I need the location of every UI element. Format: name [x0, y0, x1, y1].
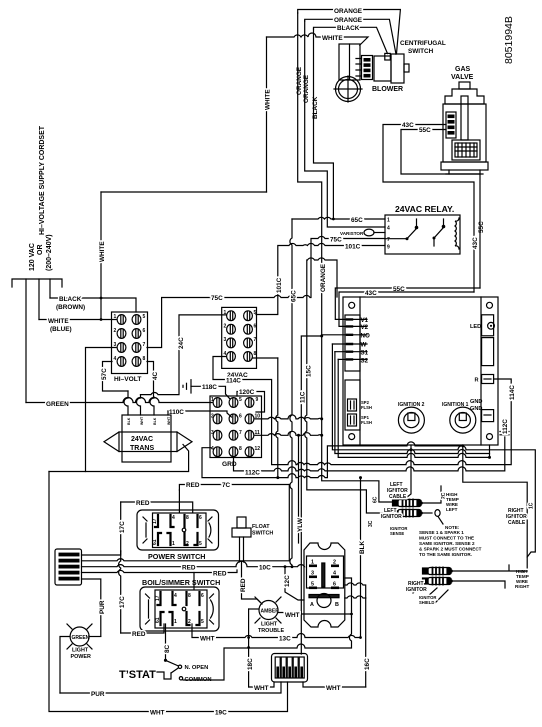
svg-text:RED: RED [136, 500, 150, 507]
svg-text:HI–VOLT: HI–VOLT [114, 376, 141, 383]
float switch [232, 517, 251, 562]
svg-text:TRANS: TRANS [130, 445, 154, 452]
svg-text:HI–VOLTAGE SUPPLY CORDSET: HI–VOLTAGE SUPPLY CORDSET [39, 125, 46, 235]
wire 110C [168, 411, 232, 417]
svg-text:MUST CONNECT TO THE: MUST CONNECT TO THE [419, 536, 474, 541]
svg-text:SHIELD: SHIELD [419, 600, 434, 605]
svg-text:120C: 120C [239, 389, 255, 396]
svg-text:SAME IGNITOR. SENSE 2: SAME IGNITOR. SENSE 2 [419, 541, 475, 546]
terminal strip 5 [55, 549, 82, 585]
svg-text:61: 61 [152, 539, 158, 545]
svg-text:8: 8 [188, 593, 191, 599]
svg-text:POWER SWITCH: POWER SWITCH [148, 552, 206, 561]
HI-VOLT connector [112, 312, 148, 374]
svg-text:6: 6 [201, 593, 204, 599]
svg-text:BOIL/SIMMER SWITCH: BOIL/SIMMER SWITCH [142, 578, 220, 587]
wire S1 riser [335, 352, 490, 454]
bottom terminal block [272, 654, 308, 683]
wire 24VAC pin8 down [276, 358, 278, 478]
svg-text:LIGHT: LIGHT [261, 622, 278, 628]
svg-text:R: R [475, 378, 479, 384]
svg-text:7: 7 [239, 430, 242, 436]
wire rocker right stubs [345, 583, 366, 598]
wire PUR bottom [60, 682, 281, 693]
svg-text:SWITCH: SWITCH [252, 531, 273, 537]
svg-text:75C: 75C [211, 295, 223, 302]
svg-text:101C: 101C [276, 277, 283, 293]
wire NO stub to orange [322, 334, 352, 336]
relay internal wires [385, 238, 407, 240]
svg-text:YLW: YLW [297, 517, 304, 532]
wire 65C vertical [290, 219, 292, 567]
svg-text:WHT: WHT [167, 416, 171, 425]
svg-text:WHITE: WHITE [265, 89, 272, 110]
svg-text:POWER: POWER [71, 654, 91, 660]
wire strip bar5 PUR [82, 579, 101, 636]
wire 120C [237, 392, 265, 413]
wire WHT amber right [278, 613, 352, 615]
svg-text:1: 1 [387, 218, 390, 224]
wire 114C [213, 357, 511, 465]
svg-text:1C: 1C [529, 502, 535, 509]
svg-text:8: 8 [143, 356, 146, 362]
svg-text:LEFT: LEFT [446, 507, 458, 512]
wire S2 stub [338, 358, 352, 360]
wire 43C into V2 [339, 292, 474, 326]
svg-text:5: 5 [239, 397, 242, 403]
wire ORANGE2 [305, 19, 396, 54]
svg-text:N. OPEN: N. OPEN [185, 665, 209, 671]
svg-text:3C: 3C [368, 520, 374, 527]
svg-text:5: 5 [199, 541, 202, 547]
svg-text:6: 6 [239, 413, 242, 419]
svg-text:TO THE SAME IGNITOR.: TO THE SAME IGNITOR. [419, 552, 472, 557]
svg-text:RED: RED [186, 482, 200, 489]
svg-text:114C: 114C [226, 378, 241, 385]
svg-text:RED: RED [213, 571, 227, 578]
svg-text:2: 2 [114, 328, 117, 334]
svg-text:6: 6 [199, 515, 202, 521]
svg-text:4C: 4C [152, 371, 159, 380]
svg-text:GREEN: GREEN [72, 635, 90, 641]
wire GRD pin11 row [255, 431, 322, 435]
transformer leads [124, 391, 128, 415]
wire ignition2 drop to left ignitor [404, 445, 411, 500]
svg-text:6: 6 [254, 324, 257, 330]
svg-text:GRD: GRD [222, 461, 237, 468]
svg-text:PUR: PUR [99, 600, 106, 614]
svg-text:WHITE: WHITE [322, 35, 343, 42]
module pin stubs [352, 319, 367, 359]
svg-text:WHT: WHT [200, 636, 215, 643]
rocker terminal bars [309, 565, 339, 590]
wire S1 stub [335, 351, 352, 353]
svg-text:BLOWER: BLOWER [372, 86, 403, 93]
svg-text:WHITE: WHITE [48, 318, 69, 325]
svg-text:LED: LED [470, 324, 481, 330]
wire YLW vertical [298, 435, 300, 543]
svg-text:GND: GND [470, 399, 482, 405]
svg-text:65C: 65C [351, 217, 363, 224]
wire 101C relay pin9 to 24VAC pin5 [256, 243, 385, 314]
svg-text:S1: S1 [361, 350, 369, 357]
svg-text:12C: 12C [284, 575, 291, 587]
wire S2 riser [338, 359, 489, 457]
wire 43C from valve [383, 125, 474, 293]
left ignitor assembly [393, 486, 442, 517]
wire RED to power switch [121, 502, 193, 512]
wire WHITE top [267, 33, 369, 45]
svg-text:57C: 57C [101, 368, 108, 380]
svg-text:VALVE: VALVE [451, 74, 474, 81]
svg-text:SENSE: SENSE [390, 531, 404, 536]
wire 4C [147, 362, 154, 398]
wire GREEN to GRD pin1 [26, 398, 212, 403]
svg-text:15C: 15C [305, 365, 312, 377]
power switch [137, 510, 219, 550]
svg-text:B: B [335, 602, 339, 608]
wire 65C to relay pin1 [292, 217, 385, 219]
svg-text:COMMON: COMMON [185, 677, 212, 683]
svg-text:1: 1 [224, 310, 227, 316]
wire 15C vertical [305, 258, 393, 513]
svg-text:55C: 55C [419, 127, 431, 134]
svg-text:ORANGE: ORANGE [296, 66, 303, 95]
wire 24C from 24VAC pin1 [141, 315, 227, 395]
wire supply stub white [38, 279, 40, 320]
svg-text:18C: 18C [247, 658, 254, 670]
wire WHT left of block [249, 682, 274, 687]
svg-text:8C: 8C [164, 644, 171, 653]
svg-text:BLK: BLK [127, 417, 131, 425]
ignition control module [343, 297, 498, 445]
right ignitor assembly [423, 565, 528, 588]
wire 57C [103, 362, 129, 392]
wire BLACK(BROWN) to HI-VOLT pin5 [50, 298, 136, 312]
node white junction [100, 318, 103, 321]
svg-text:PUR: PUR [91, 691, 105, 698]
wire BLACK top [314, 27, 388, 53]
wire white horizontal link [101, 191, 267, 193]
svg-text:FLSH: FLSH [361, 420, 372, 425]
svg-text:43C: 43C [402, 122, 414, 129]
relay contact 1 [406, 237, 409, 240]
svg-text:24VAC: 24VAC [131, 436, 153, 443]
svg-text:101C: 101C [345, 244, 361, 251]
wire orange2 steps to relay pin4 [305, 21, 385, 227]
svg-text:17: 17 [155, 595, 161, 601]
GRD connector [210, 396, 262, 458]
svg-text:10C: 10C [259, 565, 271, 572]
svg-text:2: 2 [211, 413, 214, 419]
24VAC TRANS [104, 415, 192, 462]
wire WHITE(BLUE) to HI-VOLT pin1 [39, 319, 116, 321]
wire RED 7C line [179, 485, 289, 491]
wire amber left [249, 608, 259, 610]
wire W stub [332, 343, 352, 345]
svg-text:CABLE: CABLE [389, 494, 407, 500]
svg-text:A: A [310, 602, 314, 608]
wire orange1 steps down [298, 13, 393, 502]
wire 75C from HI-VOLT pin7 to relay pin7 [147, 236, 385, 347]
svg-text:19C: 19C [215, 710, 227, 717]
svg-text:7: 7 [254, 337, 257, 343]
svg-text:43C: 43C [472, 237, 479, 249]
svg-text:WHT: WHT [326, 685, 341, 692]
wire lower-left horizontal [49, 445, 189, 472]
svg-text:& SPARK 2 MUST CONNECT: & SPARK 2 MUST CONNECT [419, 547, 482, 552]
wire supply stub black [49, 279, 51, 298]
svg-text:1: 1 [114, 314, 117, 320]
svg-text:24VAC RELAY.: 24VAC RELAY. [395, 204, 454, 214]
svg-text:120 VAC: 120 VAC [29, 243, 36, 271]
wire ignition1 drop to right ignitor cable [463, 445, 527, 571]
light switch rocker [304, 543, 345, 627]
svg-text:5: 5 [201, 619, 204, 625]
svg-text:OR: OR [37, 245, 44, 256]
svg-text:2: 2 [224, 324, 227, 330]
svg-text:65C: 65C [291, 290, 298, 302]
wire 17C vertical [119, 502, 121, 633]
svg-text:114C: 114C [509, 385, 516, 400]
svg-text:WHT: WHT [150, 710, 165, 717]
wire long white vertical from top [100, 192, 102, 320]
svg-text:24C: 24C [178, 337, 185, 349]
svg-text:118C: 118C [202, 384, 217, 391]
svg-text:BLK: BLK [359, 540, 366, 554]
svg-text:7: 7 [387, 237, 390, 243]
supply bracket [12, 279, 62, 287]
svg-text:V1: V1 [361, 317, 369, 324]
wire WHT right of block [303, 682, 366, 687]
svg-text:2: 2 [188, 619, 191, 625]
svg-text:S2: S2 [361, 358, 369, 365]
svg-text:GAS: GAS [455, 66, 471, 73]
svg-text:1: 1 [211, 397, 214, 403]
svg-text:TROUBLE: TROUBLE [258, 628, 284, 634]
svg-text:9: 9 [387, 245, 390, 251]
svg-text:VARISTOR: VARISTOR [340, 231, 364, 236]
wire float red down to amber [242, 562, 263, 604]
svg-text:5: 5 [254, 310, 257, 316]
svg-text:AMBER: AMBER [261, 609, 280, 615]
svg-text:GREEN: GREEN [46, 401, 69, 408]
wire WHT 13C from boil [192, 624, 361, 638]
wire rocker pin6 wht [183, 578, 352, 680]
svg-text:SWITCH: SWITCH [408, 48, 434, 55]
svg-text:17C: 17C [119, 521, 126, 533]
wire W to 1C [332, 344, 535, 557]
svg-text:WHITE: WHITE [99, 241, 106, 262]
svg-text:2: 2 [186, 541, 189, 547]
svg-text:RED: RED [240, 578, 247, 592]
svg-text:T’STAT: T’STAT [119, 669, 156, 681]
24VAC connector [222, 307, 257, 368]
svg-text:ORANGE: ORANGE [334, 17, 363, 24]
svg-text:6C: 6C [373, 496, 379, 503]
wire 55C into V1 [335, 288, 480, 319]
svg-text:RED: RED [132, 631, 146, 638]
wire 12C [285, 567, 304, 600]
svg-text:1: 1 [174, 619, 177, 625]
svg-text:8051994B: 8051994B [503, 16, 515, 64]
wire GRD pin4 under module [202, 442, 463, 478]
svg-text:ORANGE: ORANGE [334, 8, 363, 15]
svg-text:16C: 16C [364, 658, 371, 670]
svg-text:3: 3 [211, 430, 214, 436]
relay contact 2 [433, 237, 436, 240]
svg-text:7: 7 [143, 342, 146, 348]
wire supply long green vertical [25, 279, 27, 403]
svg-text:V2: V2 [361, 324, 369, 331]
svg-text:BLACK: BLACK [59, 296, 82, 303]
svg-text:FLOAT: FLOAT [252, 524, 270, 530]
svg-text:4: 4 [174, 593, 177, 599]
wire RED bottom boil [121, 624, 164, 633]
svg-text:WHT: WHT [285, 612, 300, 619]
ground symbol 118C [183, 380, 230, 399]
svg-text:W: W [361, 342, 367, 349]
svg-text:7C: 7C [222, 482, 231, 489]
svg-text:6: 6 [143, 328, 146, 334]
svg-text:4: 4 [172, 515, 175, 521]
svg-text:RIGHT: RIGHT [515, 584, 529, 589]
svg-text:112C: 112C [245, 470, 260, 477]
svg-text:WHT: WHT [254, 685, 269, 692]
svg-text:WHT: WHT [140, 416, 144, 425]
svg-text:RED: RED [182, 565, 196, 572]
wire strip bar1 to 17C [82, 551, 121, 555]
svg-text:11C: 11C [300, 391, 307, 403]
centrifugal switch [374, 53, 409, 83]
svg-text:55C: 55C [478, 221, 485, 233]
svg-text:17: 17 [152, 518, 158, 524]
svg-text:61: 61 [155, 617, 161, 623]
svg-text:4: 4 [387, 226, 390, 232]
wire RED 10C main [82, 561, 305, 567]
svg-text:13C: 13C [279, 636, 291, 643]
svg-text:IGNITOR: IGNITOR [381, 514, 402, 520]
svg-text:CENTRIFUGAL: CENTRIFUGAL [400, 40, 446, 47]
svg-text:4: 4 [114, 356, 117, 362]
wire GRD pin10 row [255, 415, 322, 419]
wire strip bar2 [82, 559, 290, 561]
wire lamp left pur down [60, 637, 70, 694]
svg-text:(BLUE): (BLUE) [50, 326, 72, 333]
wire WHT 19C bottom [49, 472, 288, 712]
svg-text:FLSH: FLSH [361, 405, 372, 410]
svg-text:CABLE: CABLE [508, 520, 526, 526]
wire HI-VOLT pin3 stub [86, 348, 117, 472]
svg-text:(BROWN): (BROWN) [56, 304, 85, 311]
svg-text:5: 5 [143, 314, 146, 320]
svg-text:17C: 17C [119, 596, 126, 608]
wire 8C [166, 624, 179, 666]
svg-text:SENSE 1 & SPARK 1: SENSE 1 & SPARK 1 [419, 530, 464, 535]
amber light trouble lamp [255, 597, 281, 623]
svg-text:112C: 112C [502, 419, 509, 434]
svg-text:IGNITOR: IGNITOR [406, 587, 427, 593]
blower terminal stack [356, 56, 373, 80]
svg-text:1: 1 [172, 541, 175, 547]
wire black steps to relay [314, 29, 334, 219]
wire 24VAC pin8 down [253, 357, 278, 359]
svg-text:9: 9 [256, 397, 259, 403]
svg-text:8: 8 [186, 515, 189, 521]
svg-text:75C: 75C [330, 237, 342, 244]
svg-text:8: 8 [254, 351, 257, 357]
wire BLK vertical [360, 478, 362, 638]
wire 112C from GRD pin8 [234, 437, 505, 471]
svg-text:3: 3 [224, 337, 227, 343]
svg-text:LIGHT: LIGHT [72, 648, 89, 654]
svg-text:BLACK: BLACK [337, 25, 360, 32]
svg-text:12: 12 [255, 446, 261, 452]
wire 55C from valve [401, 130, 480, 289]
green light power lamp [67, 624, 92, 649]
svg-text:43C: 43C [365, 290, 377, 297]
wire ORANGE1 [298, 10, 401, 54]
wire RED second [82, 570, 238, 573]
svg-text:(200–240V): (200–240V) [46, 234, 53, 271]
svg-text:8: 8 [239, 446, 242, 452]
svg-text:ORANGE: ORANGE [320, 263, 327, 292]
svg-text:BLK: BLK [153, 417, 157, 425]
blower [334, 44, 362, 102]
svg-text:NO: NO [361, 333, 370, 340]
